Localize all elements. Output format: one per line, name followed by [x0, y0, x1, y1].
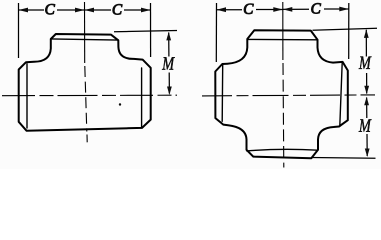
tee left inner band line	[26, 64, 28, 128]
tee body outline	[19, 34, 151, 131]
arrow right at center tick left fig	[75, 8, 85, 13]
tee vertical centerline solid top	[84, 2, 86, 63]
dim C right extension line left	[215, 3, 217, 62]
label C 2	[113, 4, 122, 14]
dim C right extension line right	[348, 3, 350, 59]
arrow down cross bottom M	[365, 149, 370, 158]
label M cross top	[359, 57, 372, 69]
cross horizontal centerline	[202, 95, 375, 96]
arrow right tip of second C	[141, 8, 151, 13]
cross left inner band line	[221, 65, 224, 122]
tee horizontal centerline	[2, 94, 177, 97]
arrow left at center tick right fig	[283, 7, 293, 12]
tee M dim line upper	[168, 33, 170, 57]
speck artifact	[119, 103, 121, 105]
arrow left tip of first C	[19, 8, 29, 13]
label M tee	[162, 57, 175, 69]
cross body outline	[215, 30, 347, 158]
arrow left at center tick left fig	[85, 8, 95, 13]
tee M dim line lower	[168, 73, 170, 94]
dim C left extension line right	[150, 3, 152, 57]
tee M extension line top	[114, 31, 177, 32]
tee right inner band line	[141, 68, 143, 127]
dim C right line seg1	[217, 9, 243, 11]
cross vertical centerline dashed	[282, 63, 285, 168]
label C 4	[311, 3, 320, 13]
tee vertical centerline dashed	[85, 66, 87, 132]
arrow up tee M	[166, 32, 171, 41]
dim C right line seg4	[324, 8, 349, 10]
arrow up cross top M	[364, 29, 369, 38]
cross bottom M dim line upper	[366, 98, 368, 119]
arrow right tip of fourth C	[339, 7, 349, 12]
tee vertical centerline tail dash	[86, 135, 88, 143]
dim C left extension line left	[18, 3, 20, 58]
arrow left tip of third C	[217, 7, 227, 12]
cross right inner band line	[340, 63, 342, 127]
arrow down cross top M	[364, 86, 369, 95]
cross top M dim line upper	[365, 30, 367, 57]
cross top M dim line lower	[366, 73, 368, 94]
arrow right at center tick right fig	[273, 7, 283, 12]
cross top M extension line	[313, 28, 378, 30]
dim C right line seg3	[283, 8, 309, 10]
cross top inner band line	[247, 38, 317, 40]
dim C left line seg2	[57, 9, 85, 11]
cross vertical centerline solid top	[282, 2, 284, 60]
arrow up cross bottom M	[364, 97, 369, 106]
label M cross bottom	[359, 119, 372, 131]
tee branch inner band line	[51, 39, 118, 40]
arrow down tee M	[167, 87, 172, 96]
dim C left line seg3	[85, 9, 112, 11]
dim C left line seg4	[124, 9, 151, 11]
dim C left line seg1	[19, 9, 45, 11]
cross bottom inner band line	[247, 149, 318, 151]
label C 3	[244, 4, 253, 14]
dim C right line seg2	[256, 9, 283, 11]
cross bottom M dim line lower	[366, 134, 368, 156]
cross bottom M extension line	[312, 157, 376, 160]
label C 1	[45, 4, 54, 14]
